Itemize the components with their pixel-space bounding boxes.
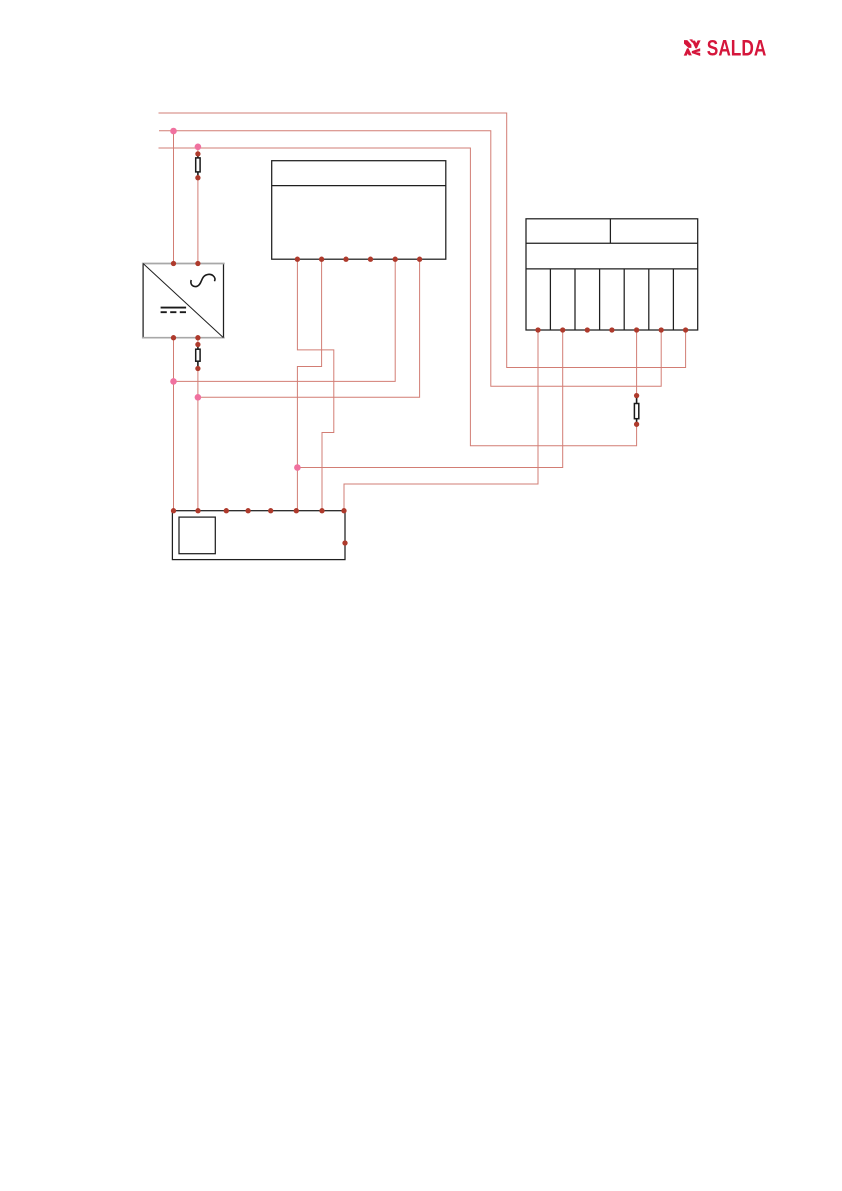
control board U3 bbox=[172, 511, 345, 560]
wire fuse F1 to converter top-right bbox=[197, 178, 199, 264]
fuse F2 bbox=[196, 345, 200, 369]
wire middle box pin2 to board pin6 bbox=[297, 259, 321, 511]
node P4 bbox=[195, 394, 202, 401]
node P5 bbox=[294, 464, 301, 471]
node converter top pins bbox=[171, 261, 176, 266]
node P3 bbox=[170, 378, 177, 385]
node board pins 1-8 bbox=[171, 508, 176, 513]
wire converter bottom-right stub to fuse F2 bbox=[197, 338, 199, 345]
converter U1 (AC/DC power supply) bbox=[142, 264, 225, 338]
node terminal pins 1-7 bbox=[535, 327, 540, 332]
node middle box pins 1-6 bbox=[295, 257, 300, 262]
wire terminal pin5 stub to fuse F3 top bbox=[636, 330, 638, 396]
node fuse F1 terminals bbox=[195, 151, 200, 156]
node converter bottom pins bbox=[171, 335, 176, 340]
wire L2: second line to terminal pin6 bbox=[159, 131, 661, 386]
wires bbox=[159, 113, 686, 511]
node P1 bbox=[170, 128, 177, 135]
SALDA logo icon bbox=[684, 39, 701, 56]
node P2 bbox=[195, 144, 202, 151]
wire L1: top line to terminal pin7 bbox=[159, 113, 686, 368]
terminal block X1 bbox=[526, 219, 698, 330]
wire converter bottom-left to board pin1 bbox=[173, 338, 175, 511]
wire stub line3 to fuse F1 bbox=[197, 147, 199, 154]
wire terminal pin1 to board pin8 bbox=[344, 330, 538, 511]
fuse F3 bbox=[634, 396, 638, 425]
wire L3: third line to fuse F3 bottom bbox=[159, 148, 637, 446]
wire middle box pin1 to board pin7 bbox=[297, 259, 333, 511]
node fuse F2 terminals bbox=[195, 342, 200, 347]
junction dots (dark) bbox=[171, 151, 688, 545]
wire node B horizontal to middle box pin6 bbox=[198, 259, 420, 397]
svg-text:SALDA: SALDA bbox=[707, 35, 767, 60]
fuse F1 bbox=[196, 154, 200, 178]
wire converter top-left feed bbox=[173, 131, 175, 264]
wire node A horizontal to middle box pin5 bbox=[174, 259, 396, 381]
junction dots (pink) bbox=[170, 128, 301, 471]
node fuse F3 terminals bbox=[634, 393, 639, 398]
wire fuse F2 to board pin2 bbox=[197, 369, 199, 511]
node board side pin bbox=[342, 540, 347, 545]
wire terminal pin2 to node C bbox=[297, 330, 562, 468]
middle box U2 (controller module) bbox=[272, 161, 446, 260]
